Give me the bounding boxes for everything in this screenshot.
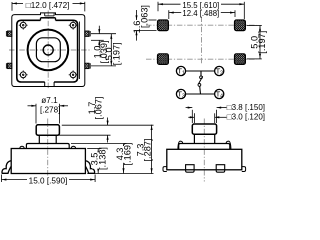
svg-text:4: 4 (220, 94, 223, 100)
svg-text:□3.0 [.120]: □3.0 [.120] (227, 113, 265, 122)
svg-text:ø7.1: ø7.1 (41, 96, 58, 105)
svg-text:2: 2 (220, 71, 223, 77)
svg-text:□3.8 [.150]: □3.8 [.150] (227, 103, 265, 112)
svg-text:[.063]: [.063] (140, 5, 150, 28)
svg-text:[.197]: [.197] (112, 42, 122, 65)
svg-text:[.287]: [.287] (143, 139, 153, 162)
svg-text:□12.0 [.472]: □12.0 [.472] (26, 1, 70, 10)
svg-text:15.0 [.590]: 15.0 [.590] (29, 176, 68, 185)
svg-text:1: 1 (182, 71, 185, 77)
svg-text:[.197]: [.197] (257, 31, 267, 54)
svg-text:[.138]: [.138] (97, 147, 107, 170)
svg-text:12.4 [.488]: 12.4 [.488] (182, 9, 219, 18)
svg-text:[.278]: [.278] (40, 105, 61, 114)
svg-text:3: 3 (182, 94, 185, 100)
svg-text:[.067]: [.067] (94, 97, 104, 120)
svg-text:[.169]: [.169] (122, 143, 132, 166)
